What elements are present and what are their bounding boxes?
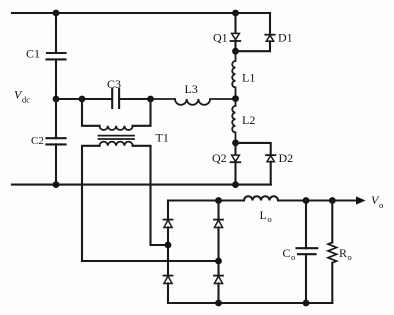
- wire: output bottom rail: [168, 302, 332, 304]
- svg-text:dc: dc: [22, 95, 30, 105]
- svg-text:C: C: [283, 246, 291, 260]
- wire: C2 top lead: [55, 99, 57, 138]
- svg-text:R: R: [339, 246, 347, 260]
- wire: D2 branch top: [236, 143, 271, 155]
- diode bridge upper-left: [164, 219, 173, 221]
- svg-text:T1: T1: [156, 131, 169, 145]
- inductor L3: [151, 99, 236, 105]
- diode bridge lower-left: [164, 275, 173, 277]
- wire: T1 primary left side: [82, 99, 100, 126]
- transistor Q1: [232, 33, 240, 39]
- wire: mid horizontal from C column to C3: [56, 98, 112, 100]
- wire: T1 secondary left lead down to bridge feed: [82, 146, 219, 261]
- wire: T1 secondary right lead down to bridge feed: [133, 146, 168, 245]
- resistor Ro: [328, 242, 337, 262]
- svg-text:L: L: [260, 208, 267, 222]
- svg-text:o: o: [268, 214, 272, 224]
- transformer T1 core: [99, 135, 135, 137]
- wire: bridge left leg middle: [167, 227, 169, 261]
- wire: C2 bottom lead: [55, 144, 57, 184]
- wire: C1 top lead: [55, 13, 57, 53]
- wire: bridge right leg middle: [217, 227, 219, 275]
- wire: D2 bottom lead: [270, 162, 272, 185]
- wire: bridge left leg bottom: [167, 283, 169, 303]
- svg-text:C3: C3: [107, 77, 121, 91]
- node: L1/L2/L3 junction: [232, 95, 239, 102]
- svg-text:C1: C1: [26, 47, 40, 61]
- node: top rail / Q1 branch junction: [232, 10, 239, 17]
- diode bridge upper-right: [214, 219, 223, 221]
- node: output rail / Co: [303, 197, 310, 204]
- diode D1: [265, 34, 274, 36]
- wire: D1 bottom to Q1 node: [236, 41, 271, 51]
- wire: Co bottom lead: [305, 254, 307, 303]
- arrow: output current Io: [356, 196, 366, 204]
- wire: Q2 bottom lead: [234, 162, 236, 184]
- node: bridge right leg AC feed: [215, 258, 222, 265]
- svg-text:Q2: Q2: [212, 151, 227, 165]
- node: mid wire / primary left branch: [79, 96, 86, 103]
- wire: Ro top lead: [331, 201, 333, 243]
- wire: Q2 top lead: [234, 143, 236, 155]
- node: bottom rail / Co: [303, 300, 310, 307]
- wire: bridge left leg lower: [167, 261, 169, 276]
- svg-text:L3: L3: [185, 82, 198, 96]
- wire: Co top lead: [305, 201, 307, 249]
- capacitor Co: [297, 247, 318, 249]
- svg-text:L2: L2: [242, 113, 255, 127]
- node: C3 / T1 primary right / L3: [147, 96, 154, 103]
- node: bridge left leg AC feed: [165, 242, 172, 249]
- node: L2/Q2/D2 junction: [232, 140, 239, 147]
- capacitor C1: [47, 52, 66, 54]
- svg-text:Q1: Q1: [213, 30, 228, 44]
- transformer T1 primary winding: [100, 126, 133, 130]
- svg-text:o: o: [291, 252, 295, 262]
- transistor Q2: [232, 155, 240, 161]
- wire: Q1 bottom lead: [234, 41, 236, 51]
- wire: C1 bottom lead to mid node: [55, 59, 57, 99]
- svg-text:C2: C2: [31, 135, 44, 147]
- transformer T1 secondary winding: [100, 142, 133, 146]
- node: output rail / Ro: [329, 197, 336, 204]
- node: top rail / C1 column junction: [53, 10, 60, 17]
- wire: bridge left leg top: [167, 201, 169, 220]
- svg-text:o: o: [379, 200, 383, 210]
- wire: Q1 top lead: [234, 13, 236, 33]
- svg-text:D2: D2: [279, 151, 294, 165]
- node: bottom rail / bridge right leg: [215, 300, 222, 307]
- wire: C3 right to L3 node: [119, 98, 150, 100]
- diode D2: [266, 154, 275, 156]
- diode bridge lower-right: [214, 275, 223, 277]
- svg-text:L1: L1: [242, 70, 255, 84]
- wire: top DC rail: [12, 12, 270, 14]
- svg-text:o: o: [348, 252, 352, 262]
- wire: bridge right leg top: [217, 201, 219, 220]
- wire: Ro bottom lead: [331, 263, 333, 303]
- svg-text:D1: D1: [278, 30, 293, 44]
- node: bottom rail / Q2: [232, 181, 239, 188]
- node: output rail / bridge right leg: [215, 197, 222, 204]
- capacitor C3: [111, 89, 113, 108]
- wire: bridge right leg bottom: [217, 283, 219, 303]
- wire: output rail with Lo: [168, 196, 357, 200]
- inductor L1: [232, 51, 235, 98]
- wire: bottom DC rail: [12, 184, 271, 186]
- node: bottom rail / C2: [53, 181, 60, 188]
- wire: T1 primary right side: [133, 99, 151, 126]
- node: mid wire / C column: [53, 96, 60, 103]
- capacitor C2: [47, 137, 66, 139]
- node: Q1/D1 bottom junction: [232, 48, 239, 55]
- inductor L2: [232, 99, 235, 143]
- wire: D1 branch top: [269, 13, 271, 35]
